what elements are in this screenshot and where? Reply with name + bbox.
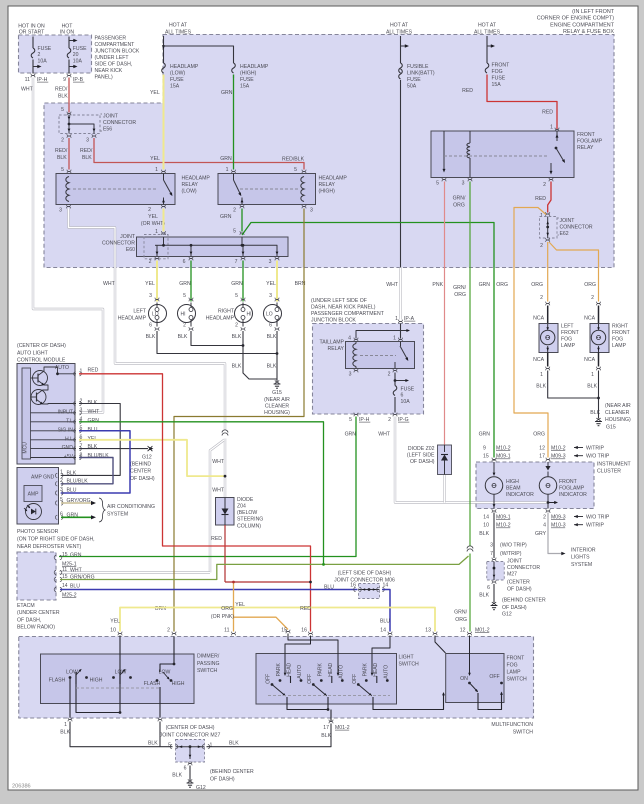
ground G15 right xyxy=(595,421,602,423)
svg-text:FRONT: FRONT xyxy=(577,132,596,138)
svg-text:YEL: YEL xyxy=(266,281,276,287)
light switch internal risers xyxy=(288,634,338,676)
svg-text:(BEHIND CENTER: (BEHIND CENTER xyxy=(502,597,546,603)
svg-text:HEADLAMP: HEADLAMP xyxy=(240,64,269,70)
svg-text:ORG: ORG xyxy=(455,617,467,623)
GRN wire module 4 to junction xyxy=(79,422,324,565)
svg-text:2: 2 xyxy=(38,52,41,58)
svg-text:2: 2 xyxy=(591,295,594,301)
svg-text:BLK: BLK xyxy=(60,729,70,735)
svg-text:16: 16 xyxy=(350,582,356,588)
svg-text:CLEANER: CLEANER xyxy=(605,410,630,416)
svg-text:GRN: GRN xyxy=(221,90,233,96)
svg-text:HOT AT: HOT AT xyxy=(390,22,409,28)
RED/BLK wire E56-2 to low relay xyxy=(68,138,70,170)
svg-text:(CENTER OF DASH): (CENTER OF DASH) xyxy=(166,725,215,731)
M27 right pin 6 xyxy=(492,580,496,582)
dimmer passing switch box xyxy=(41,654,195,704)
ORG wire E62-1 to foglamp indicator xyxy=(514,208,548,458)
PNK wire fog relay 5 to diode Z02 xyxy=(444,182,446,446)
BLK wires fog lamps to G15 right xyxy=(548,371,599,399)
RED horizontal to diode Z04 xyxy=(225,581,311,583)
svg-text:3: 3 xyxy=(80,408,83,414)
svg-text:BLU: BLU xyxy=(324,584,334,590)
BLU wire M06 to light switch xyxy=(382,590,390,632)
svg-text:AUTO: AUTO xyxy=(338,665,344,679)
WHT wire connector to diode Z04 xyxy=(224,439,226,498)
svg-text:HIGH: HIGH xyxy=(506,479,519,485)
svg-text:JOINT: JOINT xyxy=(120,234,136,240)
svg-text:GRN: GRN xyxy=(179,281,191,287)
light switch pin 13 xyxy=(433,632,437,634)
taillamp relay pin 3 xyxy=(354,369,358,371)
svg-text:BLK: BLK xyxy=(536,383,546,389)
module pin 3 INPUT xyxy=(31,412,77,414)
svg-text:W/O TRIP: W/O TRIP xyxy=(586,514,610,520)
svg-text:LAMP: LAMP xyxy=(612,343,627,349)
svg-text:2: 2 xyxy=(543,182,546,188)
svg-text:W/TRIP: W/TRIP xyxy=(586,445,605,451)
BLK wire M27 to G12 xyxy=(189,766,191,781)
svg-text:YEL: YEL xyxy=(110,618,120,624)
svg-text:BLK: BLK xyxy=(232,363,242,369)
svg-text:(BEHIND CENTER: (BEHIND CENTER xyxy=(210,769,254,775)
svg-text:(BEHIND: (BEHIND xyxy=(130,461,151,467)
svg-text:JUNCTION BLOCK: JUNCTION BLOCK xyxy=(95,48,140,54)
svg-text:LAMP: LAMP xyxy=(561,343,576,349)
svg-text:CENTER: CENTER xyxy=(130,469,151,475)
transistor Q2 xyxy=(31,390,46,405)
amp box xyxy=(24,486,42,502)
svg-text:2: 2 xyxy=(388,371,391,377)
svg-text:JUNCTION BLOCK: JUNCTION BLOCK xyxy=(311,317,356,323)
E62 pin 2 xyxy=(546,238,550,240)
svg-text:(BELOW: (BELOW xyxy=(237,510,257,516)
joint connector E62 xyxy=(546,212,550,214)
svg-text:14: 14 xyxy=(380,627,386,633)
svg-text:HOUSING): HOUSING) xyxy=(605,417,631,423)
svg-text:RIGHT: RIGHT xyxy=(218,308,235,314)
svg-text:MCU: MCU xyxy=(22,442,28,454)
svg-text:3: 3 xyxy=(149,293,152,299)
GRN/ORG wire fog relay 3 down xyxy=(469,182,471,547)
svg-text:YEL: YEL xyxy=(150,90,160,96)
svg-text:HEAD: HEAD xyxy=(328,662,334,676)
svg-text:OFF: OFF xyxy=(489,674,499,680)
BLK wire M27 to G12 right xyxy=(493,584,495,603)
svg-text:PARK: PARK xyxy=(276,663,282,677)
RED wire fog relay 2 to E62 xyxy=(548,182,551,213)
svg-text:HOT IN ON: HOT IN ON xyxy=(18,23,45,29)
svg-text:FLASH: FLASH xyxy=(144,681,161,687)
svg-text:HEADLAMP: HEADLAMP xyxy=(170,64,199,70)
svg-text:6: 6 xyxy=(149,322,152,328)
dimmer pin 1 BLK xyxy=(68,718,72,720)
svg-text:FUSE: FUSE xyxy=(73,46,87,52)
svg-text:ORG: ORG xyxy=(221,606,233,612)
svg-text:GRN/: GRN/ xyxy=(453,195,466,201)
svg-text:FUSE: FUSE xyxy=(407,77,421,83)
diode Z04 xyxy=(216,498,235,526)
svg-text:LEFT: LEFT xyxy=(133,308,146,314)
wire branch to high fuse xyxy=(164,46,234,63)
GRN/ORG wire ETACM to junction xyxy=(60,556,469,580)
svg-text:(ON TOP RIGHT SIDE OF DASH,: (ON TOP RIGHT SIDE OF DASH, xyxy=(17,536,95,542)
svg-text:GRY: GRY xyxy=(535,531,547,537)
svg-text:(OR WHT): (OR WHT) xyxy=(141,221,166,227)
E60 pin 3 xyxy=(275,257,279,259)
svg-text:FLASH: FLASH xyxy=(49,677,66,683)
svg-text:PARK: PARK xyxy=(362,663,368,677)
svg-text:2: 2 xyxy=(60,478,63,484)
light switch pin 12 xyxy=(467,632,471,634)
relay high pin 2 GRN xyxy=(240,205,244,207)
relay low pin 3 xyxy=(66,205,70,207)
svg-text:LO: LO xyxy=(266,311,273,317)
module pin 8 +5V xyxy=(31,457,77,459)
GRN wire relay high to E60 pin 5 xyxy=(241,209,243,232)
left headlamp xyxy=(149,305,167,323)
svg-text:1: 1 xyxy=(550,124,553,130)
svg-text:E56: E56 xyxy=(103,126,112,132)
air conditioning brace xyxy=(99,498,105,522)
svg-text:LO: LO xyxy=(152,311,159,317)
svg-text:YEL: YEL xyxy=(150,156,160,162)
svg-text:5: 5 xyxy=(168,742,171,748)
svg-text:RED/: RED/ xyxy=(55,148,68,154)
svg-text:BLK: BLK xyxy=(587,383,597,389)
svg-text:CONTROL MODULE: CONTROL MODULE xyxy=(17,358,66,364)
svg-text:14: 14 xyxy=(62,583,68,589)
svg-text:2: 2 xyxy=(540,243,543,249)
svg-text:HIGH: HIGH xyxy=(172,681,185,687)
front fog lamp switch box xyxy=(446,654,504,703)
svg-text:206386: 206386 xyxy=(12,784,31,790)
svg-text:+5V: +5V xyxy=(64,454,74,460)
passenger compartment junction block (taillamp relay) xyxy=(313,324,424,415)
svg-text:10: 10 xyxy=(483,523,489,529)
svg-text:RED: RED xyxy=(211,536,222,542)
light switch pin 17 xyxy=(329,720,333,722)
svg-text:LAMP: LAMP xyxy=(507,669,522,675)
taillamp relay pin 2 xyxy=(393,369,397,371)
svg-text:5: 5 xyxy=(436,180,439,186)
svg-text:NCA: NCA xyxy=(584,357,595,363)
BLU/BLK wire module 8 to photo sensor 2 xyxy=(61,458,113,484)
svg-text:INDICATOR: INDICATOR xyxy=(506,492,534,498)
svg-text:NCA: NCA xyxy=(533,315,544,321)
svg-text:5: 5 xyxy=(233,228,236,234)
svg-text:HEADLAMP: HEADLAMP xyxy=(319,175,348,181)
svg-text:STEERING: STEERING xyxy=(237,517,263,523)
svg-text:3: 3 xyxy=(59,207,62,213)
svg-text:OF DASH,: OF DASH, xyxy=(17,617,41,623)
svg-text:15A: 15A xyxy=(240,83,250,89)
svg-text:E60: E60 xyxy=(126,247,135,253)
svg-text:(UNDER CENTER: (UNDER CENTER xyxy=(17,610,60,616)
svg-text:1: 1 xyxy=(60,469,63,475)
E56 pin 2 xyxy=(67,134,71,136)
front foglamp indicator xyxy=(547,462,549,466)
svg-text:ORG: ORG xyxy=(533,432,545,438)
svg-text:WHT: WHT xyxy=(212,487,225,493)
svg-text:OFF: OFF xyxy=(307,674,313,684)
svg-text:(W/O TRIP): (W/O TRIP) xyxy=(500,542,527,548)
photo sensor pin 2 xyxy=(55,482,57,486)
svg-text:FRONT: FRONT xyxy=(612,330,631,336)
svg-text:6: 6 xyxy=(269,322,272,328)
wire trunk 3 xyxy=(486,36,488,63)
svg-text:DASH, NEAR KICK PANEL): DASH, NEAR KICK PANEL) xyxy=(311,304,376,310)
instrument cluster region xyxy=(476,462,594,509)
svg-text:1: 1 xyxy=(155,229,158,235)
svg-text:3: 3 xyxy=(269,259,272,265)
svg-text:1: 1 xyxy=(393,335,396,341)
svg-text:11: 11 xyxy=(62,567,67,573)
photo sensor pin 6 xyxy=(55,515,57,519)
svg-text:JOINT CONNECTOR M27: JOINT CONNECTOR M27 xyxy=(160,732,221,738)
svg-text:12: 12 xyxy=(539,445,545,451)
svg-text:2: 2 xyxy=(148,207,151,213)
svg-text:FOG: FOG xyxy=(507,662,518,668)
module pin 2 xyxy=(74,401,76,405)
svg-text:NCA: NCA xyxy=(584,315,595,321)
svg-text:15A: 15A xyxy=(492,82,502,88)
svg-text:ORG: ORG xyxy=(454,292,466,298)
svg-text:20: 20 xyxy=(73,52,79,58)
svg-text:SIG IN: SIG IN xyxy=(58,427,74,433)
RED/BLK wire IP-B to E56 xyxy=(68,78,70,113)
svg-text:BLK: BLK xyxy=(67,470,77,476)
svg-text:GRN/: GRN/ xyxy=(454,609,467,615)
svg-text:CLEANER: CLEANER xyxy=(265,403,290,409)
svg-text:BLU: BLU xyxy=(70,583,80,589)
GRN wire E60-7 to right headlamp xyxy=(242,261,244,302)
svg-text:50A: 50A xyxy=(407,83,417,89)
svg-text:RIGHT: RIGHT xyxy=(612,323,629,329)
svg-text:15A: 15A xyxy=(170,83,180,89)
svg-text:OF DASH): OF DASH) xyxy=(410,459,435,465)
fuse 6 10A in block xyxy=(394,373,396,386)
svg-text:WHT: WHT xyxy=(386,282,399,288)
photo diode symbol xyxy=(26,504,42,520)
svg-text:2: 2 xyxy=(167,627,170,633)
svg-text:H.L: H.L xyxy=(65,436,73,442)
taillamp relay xyxy=(400,324,402,339)
svg-text:11: 11 xyxy=(25,77,30,83)
ETACM pins xyxy=(54,555,56,559)
svg-text:BLU/BLK: BLU/BLK xyxy=(67,479,89,485)
light switch outputs xyxy=(287,697,328,710)
joint connector M27 right xyxy=(492,558,496,560)
svg-text:GRN: GRN xyxy=(345,431,357,437)
right headlamp xyxy=(235,305,253,323)
svg-text:BLU: BLU xyxy=(380,618,390,624)
svg-text:RED: RED xyxy=(535,196,546,202)
svg-text:(NEAR AIR: (NEAR AIR xyxy=(264,397,290,403)
svg-text:G12: G12 xyxy=(502,611,512,617)
svg-text:14: 14 xyxy=(483,514,489,520)
svg-text:HI: HI xyxy=(247,311,252,317)
svg-text:BLK: BLK xyxy=(590,410,600,416)
fusible link batt fuse 50A xyxy=(399,63,403,73)
module pin 1 AUTO RED xyxy=(74,372,76,376)
passenger compartment junction block (fuses) xyxy=(19,35,92,73)
svg-text:(LOW): (LOW) xyxy=(182,188,197,194)
front fog fuse 15A xyxy=(485,63,489,73)
svg-text:(HIGH): (HIGH) xyxy=(240,70,257,76)
svg-text:DIODE Z02: DIODE Z02 xyxy=(408,446,435,452)
svg-text:10A: 10A xyxy=(38,59,48,65)
svg-text:15: 15 xyxy=(62,552,68,558)
relay high pin 3 BRN xyxy=(302,205,306,207)
svg-text:(LOW): (LOW) xyxy=(170,70,185,76)
svg-text:(OR PNK): (OR PNK) xyxy=(211,614,234,620)
RED/BLK wire E56-3 to high relay xyxy=(94,138,304,170)
GRN wire taillamp to ETACM xyxy=(59,417,356,557)
svg-text:(W/TRIP): (W/TRIP) xyxy=(500,551,522,557)
svg-text:FRONT: FRONT xyxy=(492,62,511,68)
svg-text:WHT: WHT xyxy=(88,409,101,415)
svg-text:2: 2 xyxy=(540,295,543,301)
svg-text:JOINT: JOINT xyxy=(560,218,576,224)
svg-text:Z04: Z04 xyxy=(237,504,246,510)
svg-text:GND: GND xyxy=(62,445,74,451)
svg-text:5: 5 xyxy=(183,293,186,299)
svg-text:CONNECTOR: CONNECTOR xyxy=(102,240,135,246)
BLK wires to joint connector M27 xyxy=(70,722,173,747)
YEL wire into fog switch xyxy=(435,636,446,654)
svg-text:ALL TIMES: ALL TIMES xyxy=(165,29,192,35)
svg-text:G12: G12 xyxy=(196,785,206,791)
svg-text:JOINT: JOINT xyxy=(507,558,523,564)
svg-text:PASSENGER COMPARTMENT: PASSENGER COMPARTMENT xyxy=(311,311,385,317)
GRN wire E60-6 to left headlamp xyxy=(190,261,192,302)
svg-text:FUSE: FUSE xyxy=(170,77,184,83)
svg-text:FUSE: FUSE xyxy=(401,386,415,392)
dimmer wiring internal xyxy=(119,636,121,713)
svg-text:10A: 10A xyxy=(73,59,83,65)
svg-text:BLK: BLK xyxy=(232,334,242,340)
svg-text:FOGLAMP: FOGLAMP xyxy=(559,485,585,491)
svg-text:BELOW RADIO): BELOW RADIO) xyxy=(17,625,55,631)
svg-text:T.L: T.L xyxy=(66,418,73,424)
E60 pin 2 xyxy=(155,257,159,259)
svg-text:PARK: PARK xyxy=(317,663,323,677)
svg-text:3: 3 xyxy=(269,293,272,299)
fog relay pin 3 xyxy=(468,178,472,180)
svg-text:OFF: OFF xyxy=(352,674,358,684)
light switch pin 14 xyxy=(388,632,392,634)
svg-text:FOG: FOG xyxy=(612,336,623,342)
MCU box xyxy=(22,368,31,459)
svg-text:G15: G15 xyxy=(272,390,282,396)
svg-text:SWITCH: SWITCH xyxy=(197,668,218,674)
fog relay pin 2 xyxy=(549,178,553,180)
svg-text:GRN/: GRN/ xyxy=(453,285,466,291)
pin 11 IP-H xyxy=(31,74,35,76)
svg-text:RED: RED xyxy=(462,88,473,94)
svg-text:LINK(BATT): LINK(BATT) xyxy=(407,70,435,76)
svg-text:RED/: RED/ xyxy=(55,86,68,92)
svg-text:YEL: YEL xyxy=(235,602,245,608)
svg-text:AUTO: AUTO xyxy=(383,665,389,679)
svg-text:1: 1 xyxy=(540,372,543,378)
svg-text:OF DASH): OF DASH) xyxy=(507,586,532,592)
headlamp relay low xyxy=(56,174,175,205)
dimmer pin 2 xyxy=(172,632,176,634)
svg-text:ORG: ORG xyxy=(496,282,508,288)
svg-text:INTERIOR: INTERIOR xyxy=(571,547,596,553)
BLK wire cluster to M27 xyxy=(493,460,495,462)
RED wire fog fuse to relay xyxy=(487,75,557,130)
cluster lower pins xyxy=(492,509,496,511)
svg-text:BLK: BLK xyxy=(148,740,158,746)
dimmer output pin xyxy=(158,718,162,720)
dimmer pin 11 xyxy=(231,632,235,634)
svg-text:10: 10 xyxy=(110,627,116,633)
headlamp relay high xyxy=(218,174,316,205)
diode Z02 xyxy=(438,445,452,475)
svg-text:BLK: BLK xyxy=(267,334,277,340)
svg-text:INPUT: INPUT xyxy=(58,409,74,415)
wire trunk 1 xyxy=(163,36,165,63)
svg-text:ENGINE COMPARTMENT: ENGINE COMPARTMENT xyxy=(550,22,615,28)
svg-text:BLK: BLK xyxy=(88,400,98,406)
svg-text:OF DASH): OF DASH) xyxy=(210,776,235,782)
headlamp high fuse 15A xyxy=(232,63,236,73)
BLK wire module 7 to G12 xyxy=(79,448,148,450)
svg-text:2: 2 xyxy=(149,259,152,265)
svg-text:FRONT: FRONT xyxy=(507,655,526,661)
svg-text:HI: HI xyxy=(181,311,186,317)
svg-text:SYSTEM: SYSTEM xyxy=(571,562,592,568)
svg-text:RED/BLK: RED/BLK xyxy=(282,156,305,162)
fuse 2 10A xyxy=(32,37,34,49)
E60 internal bus xyxy=(164,237,278,257)
module pin 4 TL xyxy=(31,421,77,423)
svg-text:HOT: HOT xyxy=(62,23,74,29)
svg-text:14: 14 xyxy=(383,582,389,588)
svg-text:FRONT: FRONT xyxy=(559,479,578,485)
YEL wire dimmer 10 to light switch 13 xyxy=(120,608,435,632)
svg-text:HEAD: HEAD xyxy=(287,662,293,676)
svg-text:MULTIFUNCTION: MULTIFUNCTION xyxy=(491,722,533,728)
photo sensor pin 1 xyxy=(55,473,57,477)
svg-text:FRONT: FRONT xyxy=(561,330,580,336)
light switch mechanical link xyxy=(268,695,390,697)
cluster pins xyxy=(492,458,496,460)
ETACM box xyxy=(17,552,56,600)
svg-text:SWITCH: SWITCH xyxy=(513,729,534,735)
svg-text:17: 17 xyxy=(323,725,329,731)
svg-text:9: 9 xyxy=(63,77,66,83)
svg-text:WHT: WHT xyxy=(21,86,34,92)
svg-text:BLK: BLK xyxy=(57,155,67,161)
svg-text:HOT AT: HOT AT xyxy=(169,22,188,28)
E60 pin 6 xyxy=(189,257,193,259)
photo sensor box xyxy=(17,468,59,525)
svg-text:PNK: PNK xyxy=(432,282,443,288)
svg-text:INSTRUMENT: INSTRUMENT xyxy=(597,461,632,467)
headlamp low fuse 15A xyxy=(162,63,166,73)
svg-text:BLK: BLK xyxy=(321,733,331,739)
svg-text:CORNER OF ENGINE COMPT): CORNER OF ENGINE COMPT) xyxy=(537,16,614,22)
svg-text:RELAY: RELAY xyxy=(577,145,594,151)
svg-text:2: 2 xyxy=(235,322,238,328)
WHT wire IP-G to instrument cluster xyxy=(395,417,548,503)
svg-text:5: 5 xyxy=(61,107,64,113)
